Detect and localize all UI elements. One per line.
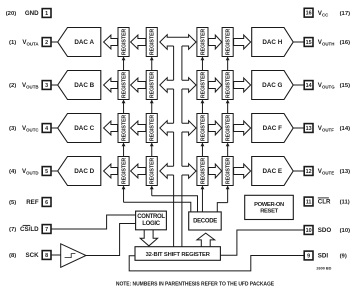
pin 16 VCC: [304, 8, 350, 17]
svg-text:REGISTER: REGISTER: [200, 29, 206, 56]
wire VOUTB pin to DAC: [51, 84, 58, 86]
wire load col4 row2: [226, 100, 230, 114]
arrow shift register to decode: [197, 233, 215, 247]
svg-text:VOUTE: VOUTE: [318, 168, 334, 176]
wire load col1 bottom: [122, 186, 126, 203]
svg-text:DAC A: DAC A: [74, 39, 94, 46]
wire load col2 bottom: [150, 186, 154, 196]
svg-text:15: 15: [306, 40, 312, 46]
pin 2 VOUTA: [9, 38, 51, 47]
svg-text:(1): (1): [9, 40, 16, 46]
arrow input reg to DAC reg F: [208, 121, 221, 135]
arrow input reg to DAC reg A: [131, 35, 146, 49]
32-bit shift register U4: [135, 247, 220, 261]
wire load col3 row2: [201, 100, 205, 114]
register DAC reg A: [118, 28, 129, 57]
svg-text:8: 8: [45, 253, 48, 259]
svg-text:(4): (4): [9, 169, 16, 175]
wire VOUTD pin to DAC: [51, 170, 58, 172]
svg-text:DAC B: DAC B: [74, 82, 94, 89]
wire VOUTH DAC to pin: [293, 41, 304, 43]
pin 4 VOUTC: [9, 124, 51, 133]
svg-text:REGISTER: REGISTER: [150, 72, 156, 99]
power-on reset U3: [245, 195, 294, 219]
register DAC reg G: [222, 71, 233, 100]
svg-text:REGISTER: REGISTER: [226, 158, 232, 185]
svg-text:32-BIT SHIFT REGISTER: 32-BIT SHIFT REGISTER: [146, 252, 211, 258]
svg-text:6: 6: [45, 200, 48, 206]
wire VOUTC pin to DAC: [51, 127, 58, 129]
register input reg E: [197, 157, 208, 186]
wire VOUTF DAC to pin: [293, 127, 304, 129]
wire load col1 row1: [122, 57, 126, 71]
wire data bus segment 3: [174, 132, 182, 166]
svg-text:VOUTB: VOUTB: [22, 82, 39, 90]
svg-text:VOUTC: VOUTC: [22, 125, 39, 133]
svg-text:REGISTER: REGISTER: [226, 115, 232, 142]
svg-text:VOUTD: VOUTD: [22, 168, 39, 176]
svg-text:REGISTER: REGISTER: [121, 115, 127, 142]
arrow input reg to DAC reg D: [131, 164, 146, 178]
wire load col2 row2: [150, 100, 154, 114]
register input reg C: [146, 114, 157, 143]
svg-text:(17): (17): [340, 11, 351, 17]
dac D: [58, 157, 101, 186]
svg-text:4: 4: [45, 126, 48, 132]
svg-text:REGISTER: REGISTER: [150, 115, 156, 142]
pin 1 GND: [6, 9, 51, 18]
dac E: [252, 157, 294, 186]
svg-text:(5): (5): [9, 200, 16, 206]
arrow register to DAC B: [104, 78, 118, 92]
wire load col3 bottom: [201, 186, 205, 212]
svg-text:10: 10: [306, 228, 312, 234]
arrow register to DAC G: [234, 78, 251, 92]
pin 11 CLR: [304, 197, 350, 206]
bus double arrow row 4: [160, 164, 196, 179]
pin 12 VOUTE: [304, 167, 350, 176]
wire load col2 row1: [150, 57, 154, 71]
register DAC reg F: [222, 114, 233, 143]
svg-text:(3): (3): [9, 126, 16, 132]
svg-text:7: 7: [45, 227, 48, 233]
svg-text:11: 11: [306, 199, 312, 205]
svg-text:REGISTER: REGISTER: [200, 115, 206, 142]
pin 6 REF: [9, 198, 51, 207]
svg-text:DAC D: DAC D: [74, 168, 94, 175]
svg-text:(11): (11): [340, 200, 350, 206]
pin 9 SDI: [304, 251, 347, 260]
svg-text:REGISTER: REGISTER: [150, 29, 156, 56]
svg-text:VOUTH: VOUTH: [318, 39, 335, 47]
svg-text:SDO: SDO: [318, 227, 332, 234]
svg-text:CLR: CLR: [318, 199, 331, 206]
register input reg F: [197, 114, 208, 143]
register input reg B: [146, 71, 157, 100]
svg-text:CS/LD: CS/LD: [20, 226, 39, 233]
svg-text:VOUTG: VOUTG: [318, 82, 335, 90]
dac H: [252, 28, 294, 57]
wire data bus segment 4: [174, 175, 182, 247]
svg-text:SDI: SDI: [318, 253, 329, 260]
dac C: [58, 114, 101, 143]
svg-text:13: 13: [306, 126, 312, 132]
register DAC reg B: [118, 71, 129, 100]
svg-text:(10): (10): [340, 228, 351, 234]
wire data bus segment 1: [174, 46, 182, 80]
svg-text:DAC H: DAC H: [262, 39, 282, 46]
arrow register to DAC D: [104, 164, 118, 178]
svg-text:(14): (14): [340, 126, 351, 132]
svg-text:SCK: SCK: [26, 252, 40, 259]
svg-text:(7): (7): [9, 227, 16, 233]
svg-text:REF: REF: [26, 199, 39, 206]
dac G: [252, 71, 294, 100]
svg-text:5: 5: [45, 169, 48, 175]
svg-text:REGISTER: REGISTER: [200, 72, 206, 99]
pin 7 CS/LD: [9, 225, 51, 234]
svg-text:DECODE: DECODE: [193, 219, 217, 225]
decode U2: [189, 212, 222, 230]
wire load col1 row3: [122, 143, 126, 157]
wire VOUTA pin to DAC: [51, 41, 58, 43]
pin 15 VOUTH: [304, 38, 350, 47]
wire CS/LD to control logic: [51, 215, 136, 229]
svg-text:16: 16: [306, 11, 312, 17]
wire load col1 row2: [122, 100, 126, 114]
bus double arrow row 1: [160, 35, 196, 50]
arrow input reg to DAC reg B: [131, 78, 146, 92]
wire SDI to shift register: [129, 256, 304, 271]
register input reg H: [197, 28, 208, 57]
wire load col3 row3: [201, 143, 205, 157]
svg-text:REGISTER: REGISTER: [226, 29, 232, 56]
svg-text:(8): (8): [9, 253, 16, 259]
register input reg G: [197, 71, 208, 100]
wire load col4 bottom: [226, 186, 230, 203]
svg-text:14: 14: [306, 83, 312, 89]
arrow input reg to DAC reg G: [208, 78, 221, 92]
arrow control logic to shift register: [140, 230, 157, 246]
svg-text:NOTE: NUMBERS IN PARENTHESIS R: NOTE: NUMBERS IN PARENTHESIS REFER TO TH…: [116, 282, 275, 288]
svg-text:(9): (9): [340, 254, 347, 260]
pin 10 SDO: [304, 226, 350, 235]
svg-text:3: 3: [45, 83, 48, 89]
dac A: [58, 28, 101, 57]
svg-text:LOGIC: LOGIC: [142, 221, 160, 227]
pin 8 SCK: [9, 251, 51, 260]
svg-text:VCC: VCC: [318, 10, 329, 17]
svg-text:DAC G: DAC G: [262, 82, 282, 89]
svg-text:REGISTER: REGISTER: [121, 29, 127, 56]
note text: [116, 282, 275, 288]
svg-text:DAC E: DAC E: [263, 168, 283, 175]
wire load col2 row3: [150, 143, 154, 157]
pin 5 VOUTD: [9, 167, 51, 176]
wire VOUTE DAC to pin: [293, 170, 304, 172]
arrow register to DAC E: [234, 164, 251, 178]
wire decode to col4: [217, 203, 227, 212]
svg-text:2600 BD: 2600 BD: [316, 266, 331, 270]
register DAC reg H: [222, 28, 233, 57]
dac B: [58, 71, 101, 100]
control logic U1: [136, 211, 167, 230]
wire VOUTG DAC to pin: [293, 84, 304, 86]
svg-text:RESET: RESET: [260, 209, 278, 215]
wire decode to col1: [124, 202, 191, 212]
pin 14 VOUTG: [304, 81, 350, 90]
svg-text:VOUTF: VOUTF: [318, 125, 334, 133]
arrow register to DAC H: [234, 35, 251, 49]
svg-text:(2): (2): [9, 83, 16, 89]
wire load col4 row1: [226, 57, 230, 71]
dac F: [252, 114, 294, 143]
arrow input reg to DAC reg C: [131, 121, 146, 135]
arrow register to DAC C: [104, 121, 118, 135]
wire shift register to SDO: [220, 230, 304, 255]
schmitt buffer A1: [61, 244, 86, 267]
bus double arrow row 3: [160, 121, 196, 136]
arrow input reg to DAC reg E: [208, 164, 221, 178]
arrow register to DAC F: [234, 121, 251, 135]
svg-text:REGISTER: REGISTER: [121, 158, 127, 185]
wire data bus segment 2: [174, 89, 182, 123]
pin 13 VOUTF: [304, 124, 350, 133]
register input reg D: [146, 157, 157, 186]
svg-text:CONTROL: CONTROL: [137, 214, 165, 220]
wire SCK buffer to control logic: [86, 224, 136, 256]
svg-text:(16): (16): [340, 40, 351, 46]
svg-text:(20): (20): [6, 11, 17, 17]
svg-text:GND: GND: [25, 10, 39, 17]
arrow register to DAC A: [104, 35, 118, 49]
arrow input reg to DAC reg H: [208, 35, 221, 49]
svg-text:POWER-ON: POWER-ON: [254, 202, 284, 208]
svg-text:1: 1: [45, 11, 48, 17]
svg-text:REGISTER: REGISTER: [226, 72, 232, 99]
svg-text:(15): (15): [340, 83, 351, 89]
svg-text:9: 9: [307, 253, 310, 259]
wire SCK pin to buffer: [51, 254, 61, 256]
svg-text:(13): (13): [340, 169, 351, 175]
svg-text:2: 2: [45, 40, 48, 46]
svg-text:12: 12: [306, 169, 312, 175]
svg-text:REGISTER: REGISTER: [200, 158, 206, 185]
register input reg A: [146, 28, 157, 57]
svg-text:VOUTA: VOUTA: [22, 39, 39, 47]
svg-text:DAC F: DAC F: [263, 125, 282, 132]
svg-text:DAC C: DAC C: [74, 125, 94, 132]
wire decode to col2: [152, 196, 198, 212]
wire load col4 row3: [226, 143, 230, 157]
register DAC reg C: [118, 114, 129, 143]
svg-text:REGISTER: REGISTER: [150, 158, 156, 185]
wire load col3 row1: [201, 57, 205, 71]
svg-text:REGISTER: REGISTER: [121, 72, 127, 99]
register DAC reg E: [222, 157, 233, 186]
bus double arrow row 2: [160, 78, 196, 93]
figure tag: [316, 266, 331, 270]
pin 3 VOUTB: [9, 81, 51, 90]
register DAC reg D: [118, 157, 129, 186]
